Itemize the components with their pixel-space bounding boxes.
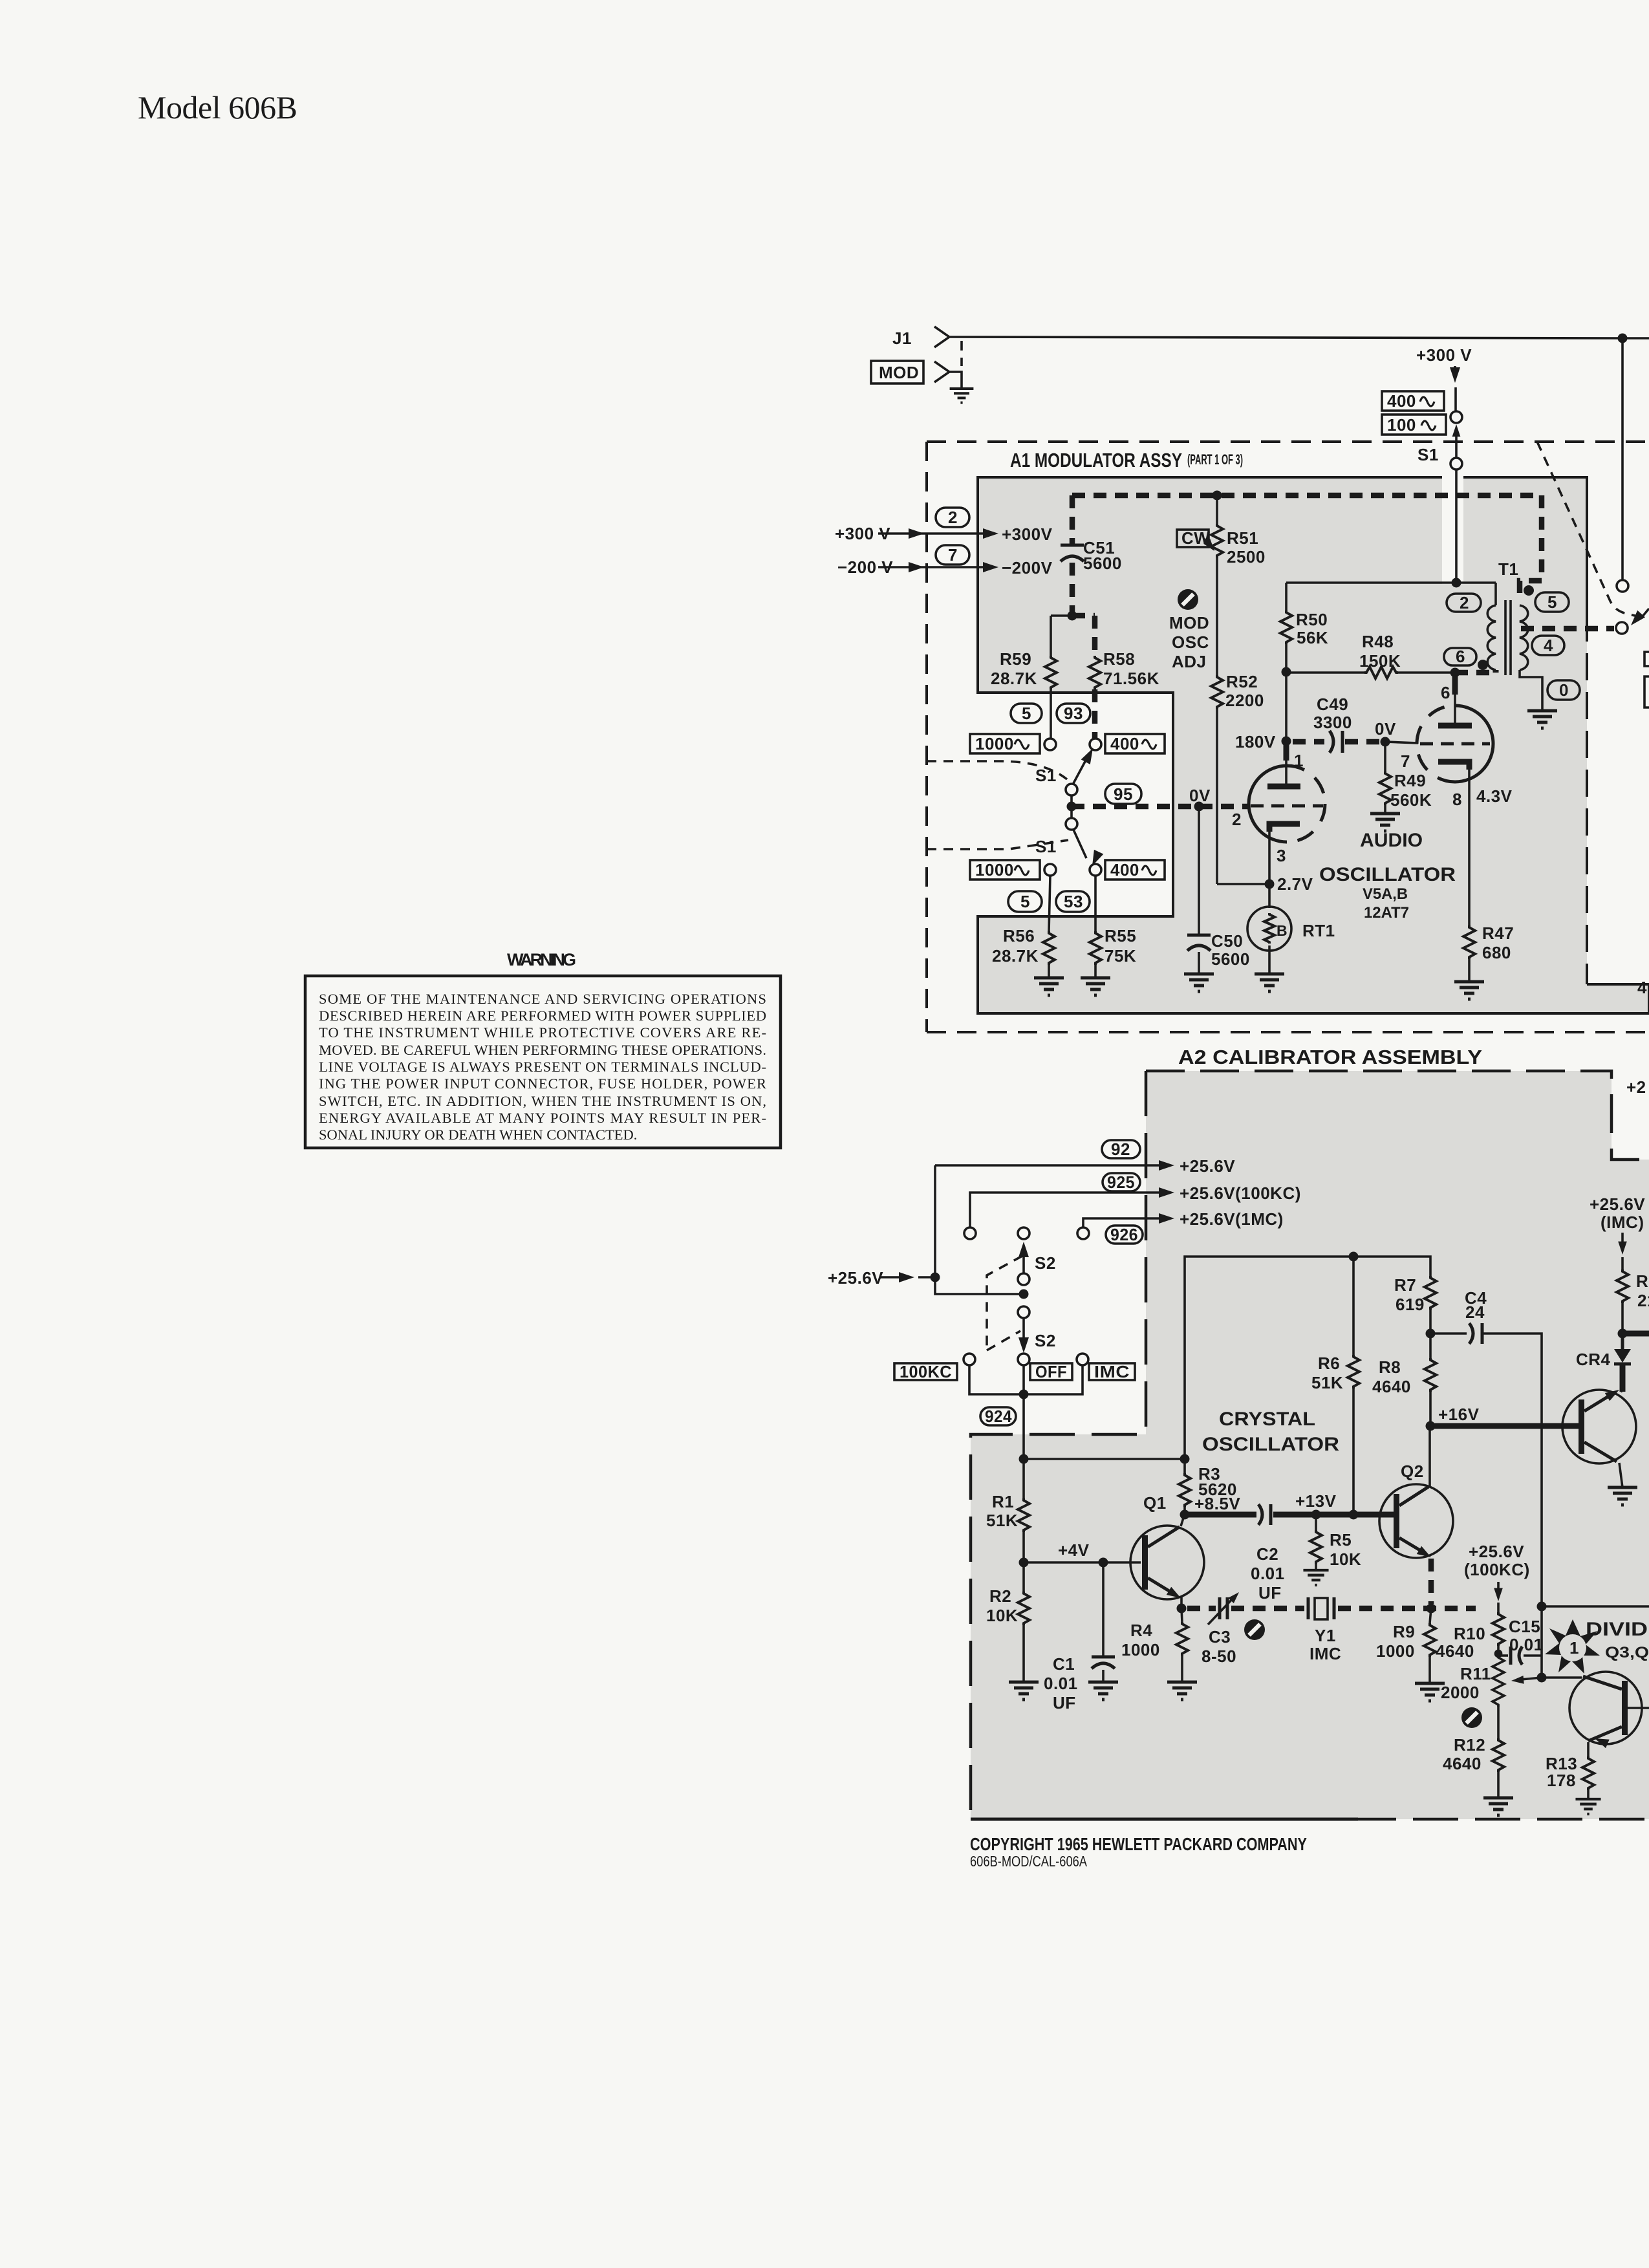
terminal 5 oval T1 (1535, 592, 1569, 612)
svg-text:R4: R4 (1130, 1621, 1152, 1640)
resistor R6 (1352, 1257, 1355, 1355)
node R6 bottom (1349, 1510, 1359, 1520)
switch S1 lower pole (1066, 818, 1077, 830)
A2 calibrator assembly shaded region (971, 1071, 1649, 1819)
ground R13 (1575, 1799, 1600, 1814)
svg-text:SWITCH, ETC. IN ADDITION, WHEN: SWITCH, ETC. IN ADDITION, WHEN THE INSTR… (319, 1093, 766, 1109)
svg-text:4640: 4640 (1372, 1377, 1411, 1396)
connector MOD input (934, 362, 949, 382)
resistor R55 (1094, 876, 1097, 931)
wire R11 tap bus (1537, 1673, 1547, 1683)
svg-text:OSCILLATOR: OSCILLATOR (1319, 864, 1456, 885)
switch S2 upper wiper (1018, 1273, 1029, 1285)
svg-text:Y1: Y1 (1315, 1626, 1336, 1645)
svg-text:A2 CALIBRATOR ASSEMBLY: A2 CALIBRATOR ASSEMBLY (1178, 1046, 1482, 1068)
svg-text:J1: J1 (892, 329, 912, 348)
label 1000~ box lower (970, 860, 1040, 880)
svg-text:R55: R55 (1105, 926, 1136, 945)
resistor R13 (1587, 1742, 1590, 1756)
T1 secondary bottom to ground (1520, 670, 1542, 711)
warning text (319, 991, 766, 1143)
svg-text:5600: 5600 (1083, 554, 1122, 573)
svg-text:+25.6V(1MC): +25.6V(1MC) (1180, 1209, 1284, 1229)
svg-text:7: 7 (1401, 751, 1410, 771)
wire 924 drop (1022, 1394, 1025, 1459)
label 400~ box lower (1105, 860, 1165, 880)
wire R52 to cathode node (1217, 883, 1269, 885)
terminal 5 oval lower (1008, 891, 1042, 912)
svg-text:2: 2 (1232, 810, 1242, 829)
svg-text:2.7V: 2.7V (1277, 874, 1313, 894)
node R14 CR4 (1618, 1329, 1628, 1339)
resistor R10 (1497, 1603, 1500, 1612)
svg-text:28.7K: 28.7K (992, 946, 1039, 966)
label OFF box (1030, 1363, 1072, 1380)
svg-text:ING THE POWER INPUT CONNECTOR,: ING THE POWER INPUT CONNECTOR, FUSE HOLD… (319, 1075, 766, 1092)
label 100~ box S1 (1382, 415, 1446, 435)
svg-text:DESCRIBED HEREIN ARE PERFORMED: DESCRIBED HEREIN ARE PERFORMED WITH POWE… (319, 1008, 766, 1024)
wire 100KC supply dashed arrow (1497, 1582, 1500, 1592)
resistor R49 (1384, 742, 1386, 772)
svg-text:7: 7 (948, 545, 958, 565)
resistor R7 (1425, 1276, 1436, 1310)
ground T1 (1527, 711, 1557, 728)
node 95 bus left (1067, 802, 1077, 812)
node +4V (1019, 1558, 1029, 1568)
svg-text:C49: C49 (1317, 695, 1348, 714)
svg-text:3300: 3300 (1313, 713, 1352, 732)
svg-text:+300 V: +300 V (835, 524, 890, 543)
svg-text:2000: 2000 (1441, 1683, 1480, 1702)
svg-text:100KC: 100KC (900, 1362, 952, 1381)
wire Q1 base (1024, 1561, 1141, 1564)
terminal 925 oval (1103, 1173, 1140, 1191)
terminal 0 oval T1 (1547, 680, 1580, 700)
ground C1 (1088, 1682, 1118, 1700)
svg-text:V5A,B: V5A,B (1363, 885, 1408, 903)
svg-text:S1: S1 (1035, 837, 1057, 856)
svg-text:400: 400 (1387, 391, 1416, 411)
resistor R5 (1315, 1515, 1317, 1530)
svg-text:8: 8 (1452, 790, 1462, 809)
svg-text:6: 6 (1441, 683, 1450, 702)
wire +25.6V feed (879, 1276, 900, 1279)
svg-text:COPYRIGHT 1965 HEWLETT PACKARD: COPYRIGHT 1965 HEWLETT PACKARD COMPANY (970, 1834, 1307, 1854)
resistor R59 (1050, 616, 1052, 656)
adjust C3 (1244, 1619, 1265, 1640)
svg-text:R6: R6 (1318, 1354, 1340, 1373)
svg-text:2500: 2500 (1227, 547, 1266, 567)
wire divider feed (1537, 1602, 1547, 1612)
transistor Q3 (1569, 1672, 1642, 1744)
svg-text:C50: C50 (1211, 931, 1243, 951)
node R7 R8 C4 (1426, 1329, 1436, 1339)
svg-text:R11: R11 (1460, 1664, 1491, 1683)
svg-text:ADJ: ADJ (1172, 652, 1207, 671)
svg-text:R56: R56 (1003, 926, 1035, 945)
svg-text:925: 925 (1107, 1172, 1135, 1192)
svg-text:1000: 1000 (975, 734, 1014, 753)
switch S1 lower contacts (1044, 864, 1056, 876)
wire MOD to ground (949, 372, 962, 389)
wire Q2 emitter dashed (1428, 1559, 1434, 1604)
svg-text:606B-MOD/CAL-606A: 606B-MOD/CAL-606A (970, 1853, 1088, 1870)
switch S1 upper contacts (1044, 739, 1056, 750)
svg-text:1000: 1000 (1376, 1641, 1415, 1661)
svg-text:R10: R10 (1454, 1624, 1485, 1643)
svg-text:SOME OF THE MAINTENANCE AND SE: SOME OF THE MAINTENANCE AND SERVICING OP… (319, 991, 766, 1007)
terminal 53 oval (1056, 891, 1090, 912)
svg-text:92: 92 (1111, 1139, 1130, 1159)
crystal oscillator supply rail (1185, 1257, 1430, 1473)
svg-text:R12: R12 (1454, 1735, 1485, 1755)
svg-text:C2: C2 (1256, 1544, 1278, 1564)
svg-text:R48: R48 (1362, 632, 1394, 651)
svg-text:4640: 4640 (1436, 1641, 1474, 1661)
svg-text:AUDIO: AUDIO (1360, 830, 1423, 851)
wire 925 output (970, 1193, 1164, 1227)
svg-text:(IMC): (IMC) (1600, 1213, 1644, 1232)
ground R56 (1034, 978, 1064, 995)
tube V5B triode (1455, 706, 1493, 744)
svg-text:C3: C3 (1209, 1627, 1231, 1647)
T1 secondary center tap output (1521, 626, 1614, 632)
R11 wiper arrow (1521, 1678, 1542, 1679)
connector J1 (934, 327, 949, 347)
label 400~ box S1 (1382, 391, 1444, 411)
linkage S1 upper dashed (927, 761, 1067, 779)
svg-text:R9: R9 (1393, 1622, 1415, 1641)
svg-text:0: 0 (1559, 680, 1569, 700)
svg-text:RT1: RT1 (1302, 921, 1335, 940)
svg-text:C1: C1 (1053, 1654, 1075, 1674)
svg-text:+300 V: +300 V (1416, 345, 1472, 365)
svg-text:51K: 51K (1311, 1373, 1343, 1392)
svg-text:926: 926 (1110, 1225, 1138, 1244)
svg-text:+4V: +4V (1058, 1540, 1090, 1560)
node pin6 junction (1450, 668, 1460, 678)
terminal 924 oval (980, 1407, 1016, 1425)
V5A grid (1251, 805, 1323, 808)
svg-text:51K: 51K (986, 1511, 1018, 1530)
wire plate bus (1286, 581, 1496, 584)
svg-text:+25.6V: +25.6V (1590, 1194, 1645, 1214)
node +8.5V (1180, 1510, 1190, 1520)
waveform marker 1 star (1545, 1619, 1600, 1674)
ground RT1 (1255, 974, 1284, 991)
svg-text:OFF: OFF (1035, 1362, 1067, 1381)
label MOD box (871, 361, 923, 383)
potentiometer R51 (1216, 495, 1218, 524)
node J1 drop junction (1618, 334, 1628, 343)
crystal Y1 (1307, 1597, 1310, 1619)
thermistor RT1 (1268, 884, 1271, 908)
terminal 2 oval T1 (1447, 594, 1481, 612)
svg-text:(PART 1 OF 3): (PART 1 OF 3) (1187, 451, 1243, 468)
wire to crystal oscillator (1024, 1458, 1185, 1460)
wire J1 output line (949, 337, 1649, 338)
ground R12 (1483, 1798, 1513, 1815)
svg-text:24: 24 (1465, 1302, 1485, 1322)
svg-text:+8.5V: +8.5V (1194, 1494, 1240, 1513)
svg-text:4.3V: 4.3V (1476, 786, 1513, 806)
svg-text:0.01: 0.01 (1251, 1564, 1285, 1583)
ground R5 (1303, 1570, 1328, 1585)
switch S1 upper wiper (1073, 757, 1088, 784)
svg-text:ENERGY AVAILABLE AT MANY POINT: ENERGY AVAILABLE AT MANY POINTS MAY RESU… (319, 1110, 766, 1126)
ground MOD (950, 389, 974, 403)
terminal 4 oval T1 (1532, 636, 1564, 655)
node 0V (1194, 802, 1204, 812)
node Q2 emitter junction (1427, 1604, 1436, 1614)
svg-text:400: 400 (1110, 734, 1139, 753)
svg-text:5600: 5600 (1211, 949, 1250, 969)
svg-text:10K: 10K (986, 1606, 1018, 1625)
linkage S1 output dashed (1537, 442, 1640, 617)
ground R49 (1370, 814, 1400, 831)
svg-text:2: 2 (948, 508, 958, 527)
terminal 926 oval (1106, 1226, 1143, 1244)
label 1000~ box upper (970, 734, 1040, 753)
potentiometer R11 (1493, 1646, 1504, 1707)
wire bold dashed feedback bus top (1072, 495, 1542, 601)
svg-text:IMC: IMC (1309, 1644, 1341, 1663)
V5A pin1 plate lead (1284, 741, 1289, 761)
linkage S1 lower dashed (927, 840, 1068, 849)
svg-text:0.01: 0.01 (1044, 1674, 1078, 1693)
resistor R4 (1181, 1608, 1182, 1622)
svg-text:71.56K: 71.56K (1103, 669, 1159, 688)
svg-text:T1: T1 (1498, 559, 1518, 579)
T1 phasing dot primary (1478, 660, 1488, 670)
svg-text:2200: 2200 (1225, 691, 1264, 710)
node 0V pin7 (1381, 737, 1390, 747)
label 100KC box (894, 1363, 957, 1380)
svg-text:0V: 0V (1375, 719, 1396, 739)
resistor R52 (1211, 675, 1223, 709)
resistor R56 (1049, 876, 1050, 931)
svg-text:MOVED. BE CAREFUL WHEN PERFORM: MOVED. BE CAREFUL WHEN PERFORMING THESE … (319, 1042, 766, 1058)
svg-text:TO THE INSTRUMENT WHILE PROTEC: TO THE INSTRUMENT WHILE PROTECTIVE COVER… (319, 1024, 766, 1041)
svg-text:A1 MODULATOR ASSY: A1 MODULATOR ASSY (1010, 449, 1182, 471)
capacitor C2 (1258, 1504, 1262, 1525)
resistor R2 (1022, 1562, 1025, 1592)
svg-text:S1: S1 (1417, 445, 1439, 464)
svg-text:+25.6V: +25.6V (1469, 1542, 1524, 1561)
wire S2 contact bus (969, 1365, 1083, 1394)
V5B cathode (1438, 762, 1469, 770)
svg-text:−200V: −200V (1002, 558, 1053, 578)
node R10 R11 (1494, 1650, 1503, 1658)
switch S1 400/100 selector (1454, 387, 1457, 411)
resistor R9 (1430, 1608, 1431, 1623)
svg-text:LINE VOLTAGE IS ALWAYS PRESENT: LINE VOLTAGE IS ALWAYS PRESENT ON TERMIN… (319, 1059, 766, 1075)
label box fragment right edge 2 (1644, 676, 1649, 707)
capacitor C50 (1198, 806, 1200, 934)
capacitor C4 (1430, 1332, 1467, 1335)
ground R47 (1454, 982, 1484, 999)
svg-text:5: 5 (1547, 592, 1557, 612)
wire 1MC supply dashed arrow (1621, 1233, 1624, 1245)
svg-text:95: 95 (1114, 784, 1133, 804)
svg-text:MOD: MOD (1169, 613, 1209, 632)
A1 shaded region outline (978, 477, 1649, 1013)
resistor R58 (1092, 616, 1098, 656)
svg-text:R1: R1 (1636, 1271, 1649, 1291)
node S1 drop joins plate bus (1452, 578, 1461, 588)
resistor R3 (1179, 1473, 1191, 1507)
capacitor C1 (1099, 1558, 1108, 1568)
adjust MOD OSC ADJ (1178, 589, 1198, 610)
svg-text:CR4: CR4 (1576, 1350, 1611, 1369)
svg-text:OSCILLATOR: OSCILLATOR (1202, 1434, 1339, 1455)
switch S1 output contacts (1617, 580, 1628, 592)
svg-text:21: 21 (1637, 1291, 1649, 1310)
svg-text:150K: 150K (1359, 651, 1401, 671)
svg-text:5: 5 (1022, 704, 1031, 723)
svg-text:UF: UF (1053, 1693, 1076, 1712)
svg-text:1000: 1000 (975, 860, 1014, 880)
svg-text:MOD: MOD (879, 363, 919, 382)
svg-text:+13V: +13V (1295, 1491, 1337, 1511)
node R51 top (1212, 491, 1222, 501)
T1 core (1504, 600, 1507, 675)
svg-text:R1: R1 (992, 1492, 1014, 1511)
V5A plate (1267, 784, 1300, 790)
warning box (305, 976, 781, 1148)
svg-text:12AT7: 12AT7 (1364, 904, 1409, 922)
wire to V5B grid (1385, 742, 1418, 743)
A2 shaded region outline / dashed assembly border (971, 1071, 1649, 1819)
svg-text:560K: 560K (1390, 790, 1432, 810)
wire -200V input (878, 566, 989, 568)
svg-text:178: 178 (1547, 1771, 1576, 1790)
resistor R8 (1429, 1334, 1432, 1358)
terminal 2 oval (936, 508, 969, 527)
svg-text:10K: 10K (1330, 1550, 1361, 1569)
node cathode 2.7V (1265, 880, 1275, 889)
wire 92 output (935, 1164, 1164, 1167)
capacitor C15 (1498, 1654, 1508, 1657)
svg-text:+25.6V: +25.6V (828, 1268, 883, 1288)
label box fragment right edge (1644, 652, 1649, 666)
ground Q8 emitter (1608, 1487, 1637, 1505)
svg-text:R2: R2 (989, 1586, 1011, 1606)
svg-text:6: 6 (1456, 647, 1465, 666)
svg-text:4: 4 (1637, 978, 1647, 997)
svg-text:R50: R50 (1296, 610, 1328, 629)
tube V5A triode (1249, 766, 1287, 804)
svg-text:C15: C15 (1509, 1617, 1540, 1636)
svg-text:75K: 75K (1105, 946, 1136, 966)
svg-text:Q3,Q: Q3,Q (1605, 1644, 1649, 1661)
terminal 7 oval (936, 545, 969, 565)
svg-text:Model 606B: Model 606B (138, 89, 297, 125)
svg-text:+25.6V: +25.6V (1180, 1156, 1235, 1176)
wire +13V bold (1185, 1512, 1256, 1518)
svg-text:DIVID: DIVID (1586, 1619, 1648, 1640)
svg-text:2: 2 (1460, 593, 1469, 612)
V5B plate (1438, 723, 1472, 729)
label CW box (1177, 530, 1209, 547)
T1 primary winding (1494, 583, 1497, 605)
resistor R47 (1463, 925, 1475, 959)
svg-text:619: 619 (1396, 1295, 1425, 1314)
svg-text:OSC: OSC (1172, 632, 1209, 652)
resistor R50 (1285, 583, 1288, 610)
svg-text:R49: R49 (1394, 771, 1426, 790)
svg-text:+300V: +300V (1002, 524, 1053, 544)
wire bold dashed 95 bus (1072, 804, 1247, 810)
svg-text:Q1: Q1 (1143, 1493, 1167, 1513)
resistor R1 (1022, 1459, 1025, 1498)
terminal 92 oval (1102, 1140, 1140, 1158)
terminal 6 oval T1 (1444, 648, 1476, 665)
ground C50 (1184, 974, 1214, 991)
V5B grid (1420, 742, 1490, 746)
resistor R48 (1286, 671, 1364, 674)
potentiometer R51 wiper arrow (1204, 539, 1211, 547)
wire feed riser (935, 1165, 1024, 1294)
svg-text:5: 5 (1020, 892, 1030, 911)
wire divider top (1051, 614, 1072, 617)
svg-text:R51: R51 (1227, 528, 1258, 548)
terminal 5 oval (1011, 704, 1042, 723)
wire 180V node (1285, 672, 1288, 741)
adjust R11 (1461, 1707, 1482, 1728)
A1 modulator assembly shaded region (978, 477, 1649, 1013)
svg-text:1000: 1000 (1121, 1640, 1160, 1659)
wire +300V input (878, 532, 989, 535)
node +16V (1426, 1421, 1436, 1431)
switch S1 output wiper (1643, 609, 1649, 616)
svg-text:53: 53 (1064, 892, 1083, 911)
wire J1 drop to S1 (1621, 338, 1624, 580)
svg-text:CRYSTAL: CRYSTAL (1219, 1409, 1315, 1430)
wire +16V bold (1430, 1423, 1579, 1429)
capacitor C3 variable (1218, 1597, 1222, 1619)
node R5 (1311, 1510, 1321, 1520)
transistor Q8 (1562, 1390, 1636, 1463)
svg-text:0.01: 0.01 (1509, 1635, 1544, 1654)
svg-text:S2: S2 (1035, 1253, 1056, 1273)
svg-text:56K: 56K (1297, 628, 1328, 647)
label 400~ box upper (1105, 734, 1165, 753)
svg-text:3: 3 (1277, 846, 1286, 865)
switch S2 lower wiper (1018, 1306, 1029, 1318)
svg-text:4: 4 (1544, 636, 1553, 655)
terminal 93 oval (1057, 704, 1090, 723)
svg-text:+16V: +16V (1438, 1405, 1480, 1424)
svg-text:(100KC): (100KC) (1464, 1560, 1530, 1579)
wire MOD shield dashed (960, 341, 963, 366)
wire crystal feedback dashed (1187, 1606, 1476, 1612)
node C51 bottom junction (1068, 611, 1077, 621)
svg-text:400: 400 (1110, 860, 1139, 880)
svg-text:−200 V: −200 V (837, 557, 893, 577)
svg-text:WARNING: WARNING (507, 950, 577, 969)
linkage S2 dashed (987, 1256, 1022, 1350)
svg-text:93: 93 (1064, 704, 1083, 723)
V5A cathode (1269, 824, 1300, 832)
ground R9 (1415, 1683, 1445, 1701)
wire output right bold (1622, 1331, 1649, 1337)
svg-text:+25.6V(100KC): +25.6V(100KC) (1180, 1183, 1301, 1203)
svg-text:R8: R8 (1379, 1357, 1401, 1377)
svg-text:R59: R59 (1000, 649, 1031, 669)
svg-text:1: 1 (1294, 751, 1304, 770)
T1 phasing dot secondary (1524, 585, 1534, 596)
